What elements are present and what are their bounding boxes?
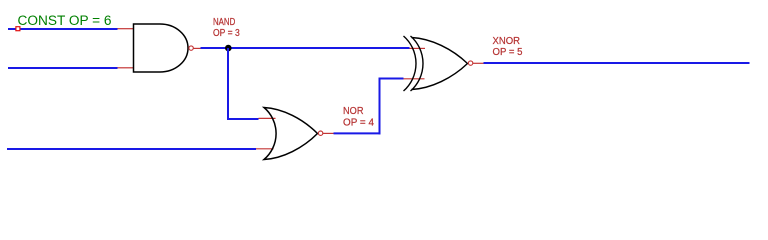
XNOR gate U3 body — [412, 38, 468, 90]
pin stub NOR input 2 — [256, 148, 274, 150]
NAND output bubble — [189, 46, 193, 50]
wire W6 XNOR output net — [484, 62, 750, 64]
wire W1 input net to NAND top input — [8, 28, 118, 30]
XNOR gate U3 extra input arc — [404, 36, 416, 91]
wire W4 branch horizontal to NOR top input — [227, 118, 259, 120]
svg-text:OP = 4: OP = 4 — [343, 118, 375, 129]
svg-text:NOR: NOR — [343, 106, 364, 117]
wire W3 input net to NOR bottom input — [7, 148, 256, 150]
XNOR output bubble — [468, 61, 472, 65]
NOR output bubble — [318, 131, 322, 135]
svg-text:CONST OP = 6: CONST OP = 6 — [18, 13, 112, 29]
svg-text:OP = 5: OP = 5 — [493, 47, 523, 58]
svg-text:XNOR: XNOR — [493, 36, 521, 47]
svg-text:NAND: NAND — [213, 17, 235, 28]
wire W4 NAND output to XNOR top input — [201, 47, 410, 49]
NAND gate U1 body — [134, 24, 189, 72]
pin stub NOR output — [323, 132, 334, 134]
pin stub NAND input 1 — [118, 28, 134, 30]
pin stub XNOR output — [473, 62, 484, 64]
pin stub NAND input 2 — [118, 67, 134, 69]
pin stub XNOR input 1 — [410, 47, 426, 49]
terminal square on W1 — [16, 27, 20, 31]
wire W5 horizontal to XNOR — [379, 78, 404, 80]
wire W5 NOR output to XNOR bottom input — [334, 132, 381, 134]
junction node on W4 — [225, 45, 232, 52]
svg-text:OP = 3: OP = 3 — [213, 28, 240, 39]
XNOR gate U3 back arc — [411, 36, 424, 91]
pin stub NAND output — [193, 47, 200, 49]
pin stub NOR input 1 — [259, 117, 276, 119]
NOR gate U2 body — [264, 108, 318, 160]
pin stub XNOR input 2 — [404, 78, 425, 80]
wire W2 input net to NAND bottom input — [8, 67, 118, 69]
wire W5 vertical riser — [379, 79, 381, 135]
wire W4 branch vertical down — [227, 48, 229, 120]
